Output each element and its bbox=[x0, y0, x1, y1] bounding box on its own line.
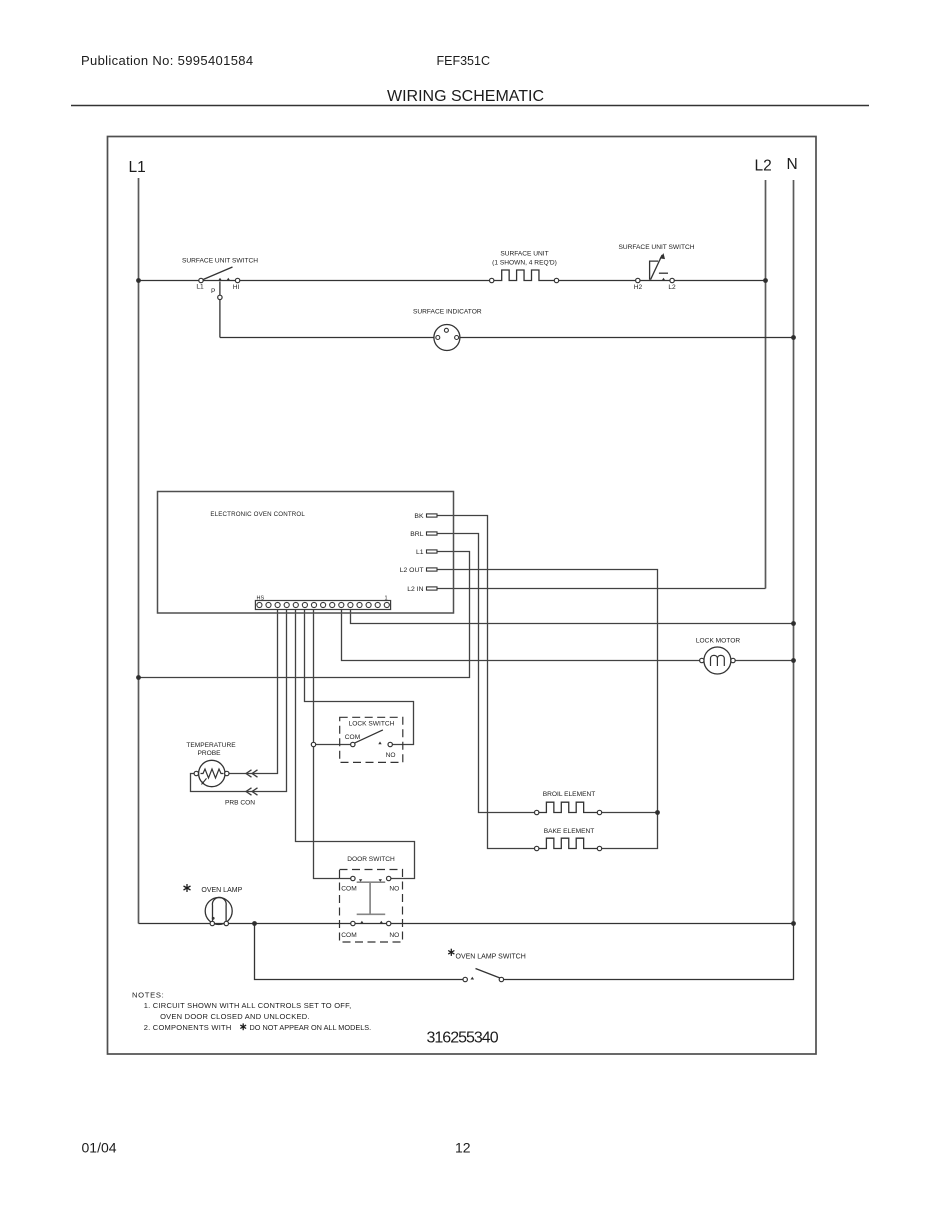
svg-text:L1: L1 bbox=[416, 549, 424, 556]
svg-text:L1: L1 bbox=[129, 159, 146, 176]
svg-text:PROBE: PROBE bbox=[197, 750, 221, 757]
svg-text:SURFACE INDICATOR: SURFACE INDICATOR bbox=[413, 309, 482, 316]
svg-text:HS: HS bbox=[257, 596, 265, 602]
svg-text:(1 SHOWN, 4 REQ'D): (1 SHOWN, 4 REQ'D) bbox=[492, 260, 557, 267]
svg-text:LOCK MOTOR: LOCK MOTOR bbox=[696, 638, 740, 645]
svg-text:12: 12 bbox=[455, 1140, 471, 1156]
svg-text:BRL: BRL bbox=[410, 531, 423, 538]
svg-text:1: 1 bbox=[385, 596, 388, 602]
svg-text:1. CIRCUIT SHOWN WITH ALL CO: 1. CIRCUIT SHOWN WITH ALL CONTROLS SET T… bbox=[144, 1001, 352, 1010]
svg-text:NOTES:: NOTES: bbox=[132, 991, 164, 1000]
svg-text:L2: L2 bbox=[668, 284, 676, 291]
svg-text:BROIL ELEMENT: BROIL ELEMENT bbox=[543, 791, 596, 798]
svg-text:Publication No: 5995401584: Publication No: 5995401584 bbox=[81, 53, 253, 68]
svg-text:P: P bbox=[211, 288, 216, 295]
svg-text:PRB CON: PRB CON bbox=[225, 800, 255, 807]
svg-text:TEMPERATURE: TEMPERATURE bbox=[186, 742, 236, 749]
svg-text:NO: NO bbox=[389, 886, 399, 893]
svg-text:HI: HI bbox=[233, 284, 240, 291]
svg-text:SURFACE UNIT: SURFACE UNIT bbox=[500, 251, 548, 258]
svg-text:DO NOT APPEAR ON ALL MODELS.: DO NOT APPEAR ON ALL MODELS. bbox=[250, 1023, 372, 1032]
svg-text:2. COMPONENTS WITH: 2. COMPONENTS WITH bbox=[144, 1023, 232, 1032]
svg-text:SURFACE UNIT SWITCH: SURFACE UNIT SWITCH bbox=[618, 244, 694, 251]
svg-text:COM: COM bbox=[341, 932, 356, 939]
svg-text:L2: L2 bbox=[755, 158, 772, 175]
svg-text:BAKE ELEMENT: BAKE ELEMENT bbox=[544, 828, 595, 835]
svg-text:L2 IN: L2 IN bbox=[407, 586, 423, 593]
svg-text:NO: NO bbox=[386, 752, 396, 759]
svg-text:ELECTRONIC OVEN CONTROL: ELECTRONIC OVEN CONTROL bbox=[210, 511, 305, 518]
svg-text:FEF351C: FEF351C bbox=[437, 54, 491, 68]
svg-text:L1: L1 bbox=[196, 284, 204, 291]
svg-text:WIRING SCHEMATIC: WIRING SCHEMATIC bbox=[387, 88, 544, 105]
svg-text:H2: H2 bbox=[634, 284, 643, 291]
svg-text:BK: BK bbox=[414, 513, 424, 520]
svg-text:COM: COM bbox=[341, 886, 356, 893]
svg-text:NO: NO bbox=[389, 932, 399, 939]
svg-text:DOOR SWITCH: DOOR SWITCH bbox=[347, 856, 395, 863]
svg-text:OVEN LAMP: OVEN LAMP bbox=[201, 887, 242, 894]
svg-text:N: N bbox=[787, 156, 798, 173]
svg-text:OVEN LAMP SWITCH: OVEN LAMP SWITCH bbox=[456, 954, 526, 961]
svg-text:316255340: 316255340 bbox=[427, 1030, 499, 1047]
svg-text:OVEN DOOR CLOSED AND UNLOCKED.: OVEN DOOR CLOSED AND UNLOCKED. bbox=[160, 1012, 310, 1021]
svg-text:L2 OUT: L2 OUT bbox=[400, 567, 424, 574]
svg-text:01/04: 01/04 bbox=[82, 1140, 117, 1156]
svg-text:SURFACE UNIT SWITCH: SURFACE UNIT SWITCH bbox=[182, 258, 258, 265]
svg-text:COM: COM bbox=[345, 734, 360, 741]
svg-text:LOCK SWITCH: LOCK SWITCH bbox=[349, 721, 395, 728]
